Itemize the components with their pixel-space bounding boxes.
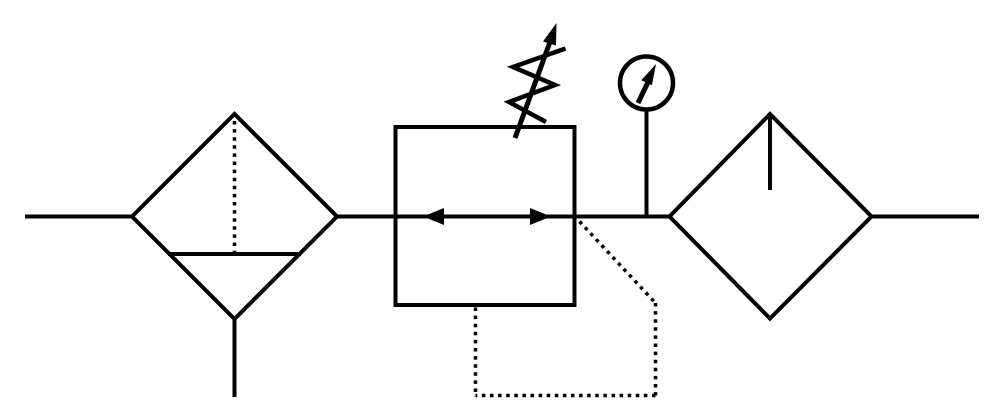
wire: flow path through regulator bbox=[397, 215, 574, 219]
pilot line: dotted right vertical bbox=[654, 303, 658, 396]
filter F1 element (dotted vertical) bbox=[233, 121, 237, 254]
regulator R1 adjustment arrow shaft bbox=[515, 42, 550, 138]
pilot line: dotted bottom horizontal bbox=[476, 394, 656, 398]
wire: line filter to regulator bbox=[337, 215, 397, 219]
wire: outlet line right bbox=[872, 215, 979, 219]
regulator R1 left flow arrowhead bbox=[423, 208, 444, 225]
gauge G1 needle arrowhead bbox=[641, 64, 656, 85]
pilot line: dotted diagonal from regulator outlet bbox=[580, 222, 656, 304]
regulator R1 body (square) bbox=[396, 127, 575, 305]
regulator R1 spring (zigzag) bbox=[509, 49, 566, 123]
wire: inlet line left bbox=[25, 215, 134, 219]
gauge G1 needle shaft bbox=[638, 78, 650, 103]
lubricator L1 body (diamond) bbox=[670, 114, 872, 319]
filter F1 water-trap baffle (chord) bbox=[168, 252, 301, 256]
filter F1 body (diamond) bbox=[132, 114, 337, 319]
regulator R1 adjustment arrowhead bbox=[543, 23, 557, 46]
regulator R1 right flow arrowhead bbox=[530, 208, 551, 225]
filter F1 drain line bbox=[233, 319, 237, 397]
gauge G1 dial (circle) bbox=[620, 57, 673, 110]
lubricator L1 drip tube (inner vertical) bbox=[768, 116, 772, 190]
pilot line: dotted left vertical to regulator bottom bbox=[474, 308, 478, 398]
gauge G1 stem bbox=[645, 110, 649, 217]
wire: regulator to lubricator bbox=[574, 215, 671, 219]
